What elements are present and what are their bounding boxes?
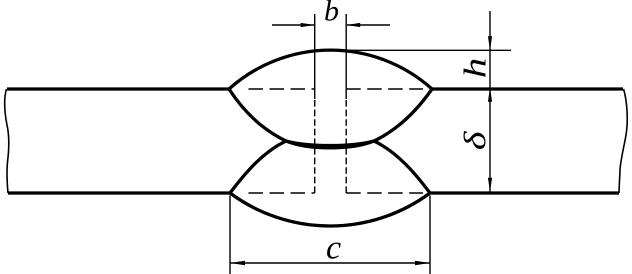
b extension line left — [314, 14, 316, 99]
svg-text:δ: δ — [458, 131, 492, 150]
upper weld bead top arc — [229, 50, 432, 89]
right plate bottom edge — [430, 191, 619, 194]
lower weld bead bottom arc — [230, 193, 430, 226]
lower weld bead top arc — [230, 141, 430, 193]
left plate break line — [5, 89, 9, 193]
c extension line right — [429, 196, 431, 274]
right plate break line — [619, 89, 627, 193]
delta arrow bottom (points down) — [488, 178, 492, 192]
h and delta dimension line — [489, 11, 491, 192]
b arrow right (points left) — [346, 23, 360, 27]
dashed gap edge right — [345, 99, 347, 193]
h arrow top (points down) — [488, 36, 492, 50]
b arrow left (points right) — [301, 23, 315, 27]
right plate top edge — [432, 87, 623, 90]
dashed gap edge left — [314, 99, 316, 193]
c dimension line — [230, 262, 430, 264]
c arrow left (points left) — [230, 261, 245, 265]
svg-text:c: c — [326, 230, 341, 267]
b extension line right — [345, 14, 347, 99]
dashed groove line top right — [346, 88, 423, 90]
dashed groove line bottom left — [249, 192, 315, 194]
b dimension line right tail — [347, 24, 390, 26]
svg-text:h: h — [457, 58, 492, 79]
left plate top edge — [7, 87, 229, 90]
dashed groove line bottom right — [346, 192, 423, 194]
upper weld bead bottom arc — [229, 89, 432, 148]
dashed groove line top left — [249, 88, 315, 90]
h bottom / delta top arrow (points up) — [488, 88, 492, 102]
left plate bottom edge — [8, 191, 230, 194]
svg-text:b: b — [324, 0, 339, 28]
b dimension line left tail — [272, 24, 314, 26]
c extension line left — [229, 196, 231, 274]
h crown extension line — [340, 49, 511, 51]
c arrow right (points right) — [415, 261, 430, 265]
